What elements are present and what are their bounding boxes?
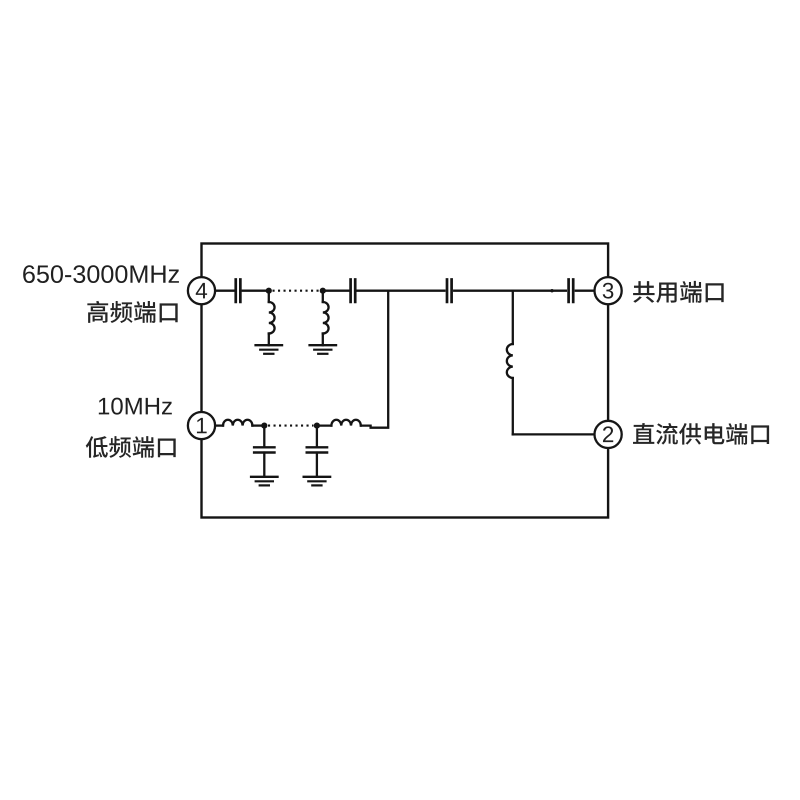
ground G1: [256, 344, 282, 346]
wire C4 to port3: [576, 290, 595, 292]
shunt inductor L1: [268, 291, 270, 302]
wire node D to L5: [317, 424, 332, 426]
wire node B to C2: [323, 290, 351, 292]
ground G3: [251, 476, 277, 478]
junction dot: [550, 289, 553, 292]
node B: [320, 288, 326, 294]
wire port1 to L4: [215, 424, 223, 426]
port 4: [188, 277, 215, 304]
capacitor C4: [567, 280, 570, 302]
label 650-3000MHz: [23, 265, 179, 283]
shunt inductor L3 DC feed: [512, 291, 514, 344]
port 3: [595, 277, 622, 304]
node D: [314, 423, 320, 429]
dotted wire node A to node B: [273, 290, 320, 292]
wire riser low-pass to top rail: [361, 291, 388, 428]
wire port4 to C1: [215, 290, 233, 292]
label 10MHz: [99, 398, 172, 415]
port 1: [188, 412, 215, 439]
capacitor C1: [234, 280, 237, 302]
node A: [266, 288, 272, 294]
port 2: [595, 421, 622, 448]
ground G4: [304, 476, 330, 478]
ground G2: [310, 344, 336, 346]
node C: [261, 423, 267, 429]
label 高频端口: [87, 301, 177, 323]
wire C2 to C3: [358, 290, 445, 292]
wire C1 to node A: [243, 290, 269, 292]
shunt inductor L2: [322, 291, 324, 302]
dotted wire node C to node D: [268, 425, 314, 427]
capacitor C3: [446, 280, 449, 302]
series inductor L4: [223, 420, 252, 426]
wire C3 to C4: [454, 290, 566, 292]
label 低频端口: [86, 436, 176, 458]
enclosure box: [202, 244, 609, 518]
wire L3 to port2: [513, 433, 595, 435]
shunt capacitor C6: [316, 426, 318, 448]
shunt capacitor C5: [263, 426, 265, 448]
label 直流供电端口: [633, 423, 769, 445]
capacitor C2: [349, 280, 352, 302]
wire L4 to node C: [252, 424, 264, 426]
series inductor L5: [331, 420, 360, 426]
label 共用端口: [633, 281, 724, 303]
